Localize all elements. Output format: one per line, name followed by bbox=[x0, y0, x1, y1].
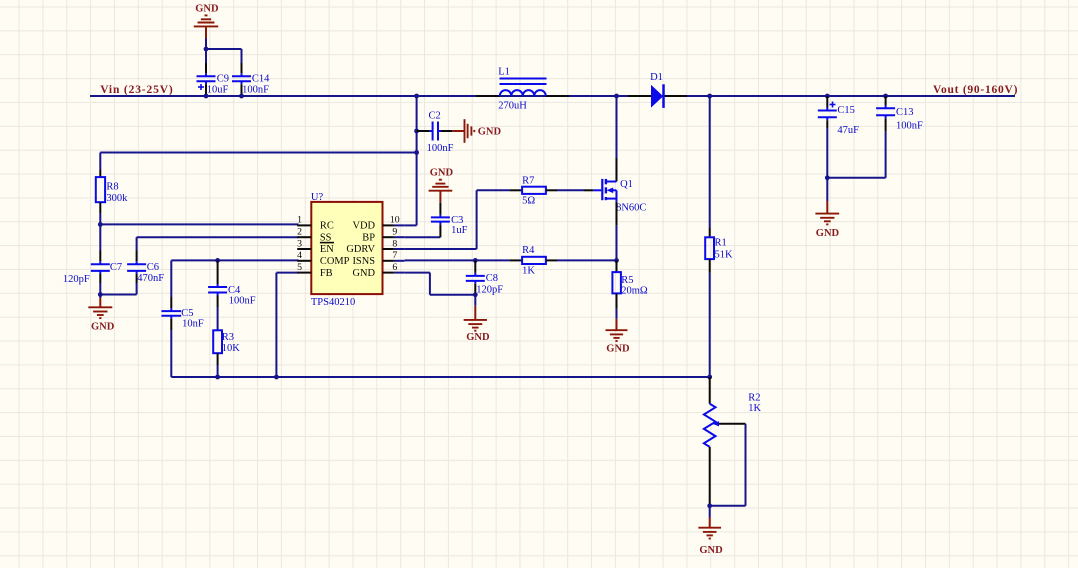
svg-text:3: 3 bbox=[297, 238, 302, 249]
junction ISNS/C8 bbox=[473, 258, 478, 263]
wire gnd to C9/C14 bbox=[206, 49, 242, 63]
svg-text:C6: C6 bbox=[147, 262, 159, 273]
svg-text:SS: SS bbox=[320, 232, 332, 243]
svg-text:8: 8 bbox=[392, 238, 397, 249]
power ground GND top bbox=[194, 15, 219, 49]
svg-text:GND: GND bbox=[606, 344, 630, 355]
svg-text:Q1: Q1 bbox=[620, 179, 633, 190]
junction source/R4/R5 bbox=[614, 258, 619, 263]
op-amp U7 body (TPS40210) bbox=[311, 202, 382, 294]
wire ISNS (pin7) bbox=[405, 259, 510, 261]
wire C6 bottom bbox=[136, 283, 138, 295]
svg-text:GND: GND bbox=[478, 126, 502, 137]
capacitor C5 bbox=[161, 297, 203, 330]
svg-text:TPS40210: TPS40210 bbox=[311, 297, 355, 308]
net label Vout bbox=[933, 84, 1018, 96]
label GND above C3 bbox=[430, 168, 454, 179]
svg-text:4: 4 bbox=[297, 250, 302, 261]
svg-text:GND: GND bbox=[352, 268, 375, 279]
svg-text:1K: 1K bbox=[748, 403, 761, 414]
junction rail/C13 bbox=[883, 94, 888, 99]
svg-text:10uF: 10uF bbox=[207, 85, 229, 96]
wire VDD vertical bbox=[405, 96, 417, 225]
svg-text:C8: C8 bbox=[486, 273, 498, 284]
svg-text:R7: R7 bbox=[522, 175, 534, 186]
capacitor C8 bbox=[466, 260, 504, 295]
wire C5 to bottom bbox=[171, 330, 217, 377]
power ground GND bottom bbox=[698, 506, 721, 539]
pin 10 (VDD) bbox=[352, 215, 404, 232]
wire source bbox=[616, 202, 618, 261]
svg-text:100nF: 100nF bbox=[242, 85, 269, 96]
svg-text:10: 10 bbox=[390, 215, 400, 226]
wire SS (pin2) bbox=[137, 237, 299, 250]
pin 2 (SS) bbox=[297, 227, 332, 244]
svg-text:100nF: 100nF bbox=[427, 143, 454, 154]
svg-text:VDD: VDD bbox=[352, 221, 375, 232]
resistor R4 bbox=[510, 245, 557, 276]
junction at gnd/C9 bbox=[204, 47, 209, 52]
pin 4 (COMP) bbox=[297, 250, 349, 267]
pin 1 (RC) bbox=[297, 215, 334, 232]
svg-text:10K: 10K bbox=[222, 343, 241, 354]
SS underline bbox=[320, 242, 334, 244]
wire R8 bottom to RC bbox=[99, 213, 101, 224]
svg-text:C5: C5 bbox=[181, 308, 193, 319]
capacitor C15 bbox=[818, 96, 859, 136]
svg-text:GND: GND bbox=[91, 321, 115, 332]
svg-text:ISNS: ISNS bbox=[352, 256, 375, 267]
power ground GND below C8 bbox=[464, 295, 487, 331]
junction C7/gnd bbox=[98, 292, 103, 297]
svg-text:RC: RC bbox=[320, 221, 334, 232]
svg-text:GDRV: GDRV bbox=[346, 244, 375, 255]
svg-text:10nF: 10nF bbox=[182, 318, 204, 329]
net label Vin bbox=[100, 84, 173, 96]
power ground GND below C15 bbox=[815, 178, 839, 225]
svg-text:1uF: 1uF bbox=[451, 225, 468, 236]
junction rail/C15 bbox=[825, 94, 830, 99]
junction R8 wire tap bbox=[414, 150, 419, 155]
svg-text:R5: R5 bbox=[621, 275, 633, 286]
label GND below C15 bbox=[816, 228, 840, 239]
svg-text:1K: 1K bbox=[522, 265, 535, 276]
wire BP (pin9) to C3 bbox=[405, 236, 441, 238]
capacitor C7 bbox=[63, 251, 122, 286]
junction R3/bottom wire bbox=[215, 375, 220, 380]
diode D1 bbox=[628, 72, 687, 108]
svg-text:47uF: 47uF bbox=[837, 125, 859, 136]
svg-text:C2: C2 bbox=[429, 110, 441, 121]
wire FB (pin5) bbox=[276, 273, 298, 377]
svg-text:C15: C15 bbox=[837, 105, 855, 116]
svg-text:C7: C7 bbox=[110, 262, 122, 273]
power ground GND right of C2 bbox=[452, 119, 474, 143]
wire GDRV (pin8) bbox=[405, 190, 510, 249]
pin 5 (FB) bbox=[297, 262, 333, 279]
power ground GND below R5 bbox=[606, 309, 628, 341]
svg-text:120pF: 120pF bbox=[476, 284, 503, 295]
wire Vin rail bbox=[90, 95, 1015, 97]
svg-text:5: 5 bbox=[297, 262, 302, 273]
capacitor C13 bbox=[876, 96, 923, 132]
svg-text:COMP: COMP bbox=[320, 256, 350, 267]
wire R1 to bottom bbox=[709, 273, 711, 377]
svg-text:EN: EN bbox=[320, 244, 334, 255]
wire C15 down bbox=[826, 128, 828, 178]
svg-text:100nF: 100nF bbox=[896, 121, 923, 132]
svg-text:Vout (90-160V): Vout (90-160V) bbox=[933, 84, 1018, 96]
capacitor C14 bbox=[232, 63, 270, 96]
svg-text:6: 6 bbox=[392, 262, 397, 273]
svg-text:U?: U? bbox=[311, 192, 324, 203]
pin 3 (EN) bbox=[297, 238, 334, 255]
junction COMP/C4 bbox=[215, 258, 220, 263]
wire C13 down bbox=[827, 132, 885, 178]
inductor L1 bbox=[476, 66, 569, 111]
svg-text:FB: FB bbox=[320, 268, 333, 279]
junction rail/Q1 drain bbox=[614, 94, 619, 99]
pin 8 (GDRV) bbox=[346, 238, 404, 255]
junction C15/C13 gnd bbox=[825, 175, 830, 180]
svg-text:8N60C: 8N60C bbox=[616, 202, 646, 213]
wire R8 top bbox=[100, 153, 416, 171]
svg-text:7: 7 bbox=[392, 250, 397, 261]
svg-text:C14: C14 bbox=[252, 74, 270, 85]
wire bottom feedback bbox=[218, 376, 710, 378]
svg-text:BP: BP bbox=[362, 232, 375, 243]
wire COMP (pin4) bbox=[171, 260, 298, 297]
wire R4 to R5 node bbox=[557, 259, 617, 261]
svg-text:L1: L1 bbox=[498, 66, 510, 77]
junction C9/rail bbox=[204, 94, 209, 99]
wire C7 to gnd node bbox=[99, 283, 101, 295]
wire drain bbox=[616, 96, 618, 182]
resistor R1 bbox=[705, 96, 733, 273]
svg-text:GND: GND bbox=[466, 332, 490, 343]
svg-text:GND: GND bbox=[699, 545, 723, 556]
svg-text:C4: C4 bbox=[228, 285, 241, 296]
power ground GND below C7 bbox=[88, 295, 112, 319]
svg-text:GND: GND bbox=[430, 168, 454, 179]
label GND below C7 bbox=[91, 321, 115, 332]
pin 6 (GND) bbox=[352, 262, 404, 279]
capacitor C9 bbox=[197, 63, 229, 96]
wire gnd node horizontal bbox=[100, 294, 136, 296]
svg-text:100nF: 100nF bbox=[229, 296, 256, 307]
label GND right of C2 bbox=[478, 126, 502, 137]
wire RC (pin1) bbox=[100, 223, 298, 225]
wire C4 to R3 bbox=[217, 307, 219, 330]
svg-text:R8: R8 bbox=[106, 181, 118, 192]
pin 7 (ISNS) bbox=[352, 250, 404, 267]
wire C7 branch bbox=[99, 224, 101, 250]
svg-text:GND: GND bbox=[816, 228, 840, 239]
wire R3 to bottom bbox=[217, 365, 219, 377]
resistor R5 bbox=[612, 260, 647, 309]
junction rail/VDD bbox=[414, 94, 419, 99]
svg-text:270uH: 270uH bbox=[498, 101, 527, 112]
junction C14/rail bbox=[239, 94, 244, 99]
junction R8/RC/C7 bbox=[98, 222, 103, 227]
svg-text:470nF: 470nF bbox=[137, 273, 164, 284]
junction rail/R1 bbox=[707, 94, 712, 99]
svg-text:9: 9 bbox=[392, 227, 397, 238]
resistor R7 bbox=[510, 175, 557, 206]
svg-text:1: 1 bbox=[297, 215, 302, 226]
wire GND (pin6) path bbox=[405, 273, 476, 295]
svg-text:2: 2 bbox=[297, 227, 302, 238]
junction FB/bottom wire bbox=[274, 375, 279, 380]
label GND top bbox=[195, 4, 219, 15]
svg-text:GND: GND bbox=[195, 4, 219, 15]
junction bottom/R2 bbox=[707, 375, 712, 380]
svg-text:51K: 51K bbox=[715, 249, 734, 260]
resistor R3 bbox=[213, 330, 240, 365]
pin 9 (BP) bbox=[362, 227, 404, 244]
capacitor C2 bbox=[417, 110, 454, 153]
svg-text:D1: D1 bbox=[650, 72, 663, 83]
junction C8/gnd bbox=[473, 292, 478, 297]
capacitor C6 bbox=[127, 251, 164, 284]
label U? bbox=[311, 192, 324, 203]
label GND below C8 bbox=[466, 332, 490, 343]
svg-text:R4: R4 bbox=[522, 245, 535, 256]
svg-text:R1: R1 bbox=[715, 238, 727, 249]
svg-text:R3: R3 bbox=[222, 332, 234, 343]
potentiometer R2 bbox=[704, 377, 762, 506]
resistor R8 bbox=[96, 170, 128, 213]
svg-text:120pF: 120pF bbox=[63, 274, 90, 285]
label GND below R5 bbox=[606, 344, 630, 355]
junction R2 bottom bbox=[707, 503, 712, 508]
junction C2 tap bbox=[414, 129, 419, 134]
svg-text:C13: C13 bbox=[896, 107, 914, 118]
svg-text:C9: C9 bbox=[217, 74, 229, 85]
wire R7 to Q1 gate bbox=[557, 189, 584, 191]
svg-text:Vin (23-25V): Vin (23-25V) bbox=[100, 84, 173, 96]
power ground GND above C3 bbox=[429, 180, 453, 203]
label TPS40210 bbox=[311, 297, 355, 308]
svg-text:5Ω: 5Ω bbox=[522, 195, 535, 206]
label GND bottom bbox=[699, 545, 723, 556]
capacitor C4 bbox=[208, 260, 256, 307]
transistor Q1 bbox=[584, 179, 646, 214]
svg-text:20mΩ: 20mΩ bbox=[621, 286, 648, 297]
svg-text:300k: 300k bbox=[106, 193, 128, 204]
capacitor C3 bbox=[431, 203, 468, 238]
